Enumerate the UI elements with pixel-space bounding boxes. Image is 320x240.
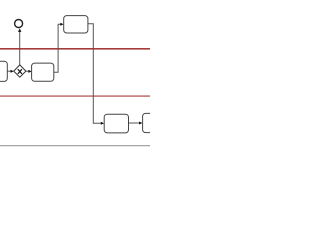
task rect bottom-right (cut off) [143,113,167,132]
wire flow midrect-to-toprect elbow [54,24,61,72]
lane border red bottom [0,95,150,97]
task rect bottom-left [104,114,128,133]
task rect left (cut off) [0,61,7,81]
task rect middle [32,63,54,81]
wire flow leftrect-to-diamond [7,70,11,72]
wire flow diamond-to-circle [19,31,21,65]
arrowhead into middle rect [28,70,31,73]
gateway X mark [18,69,22,74]
lane border red top [0,48,150,50]
wire flow bottomleft-to-bottomright [129,122,140,124]
wire flow diamond-to-midrect [26,70,29,72]
arrowhead into diamond [11,70,14,73]
lane border grey [0,145,150,147]
arrowhead into top rect [60,23,63,26]
arrowhead into bottom-left rect [101,122,104,125]
end event circle [15,20,23,28]
task rect top [64,16,88,33]
arrowhead into circle [18,28,21,32]
wire flow toprect-to-bottomleftrect elbow [88,24,102,123]
gateway diamond X [14,65,26,77]
arrowhead into bottom-right rect [139,122,142,125]
